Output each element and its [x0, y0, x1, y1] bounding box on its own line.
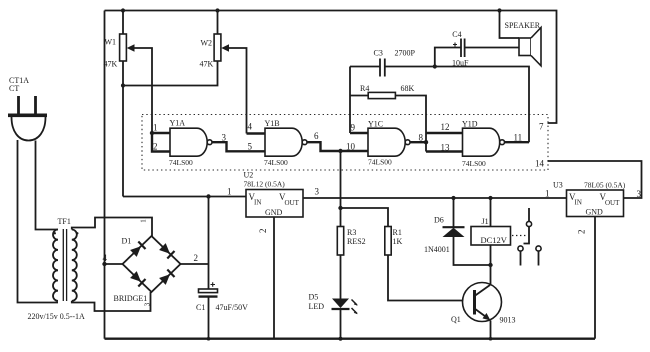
svg-text:Q1: Q1 — [451, 315, 461, 324]
svg-text:3: 3 — [144, 302, 152, 306]
svg-text:12: 12 — [441, 122, 450, 132]
svg-text:TF1: TF1 — [58, 217, 71, 226]
svg-text:47K: 47K — [200, 60, 214, 69]
svg-text:1K: 1K — [393, 237, 403, 246]
svg-text:1: 1 — [140, 219, 148, 223]
svg-text:1N4001: 1N4001 — [424, 245, 450, 254]
svg-text:4: 4 — [248, 122, 253, 132]
svg-text:10uF: 10uF — [452, 59, 469, 68]
svg-text:13: 13 — [441, 143, 451, 153]
svg-text:2700P: 2700P — [395, 49, 416, 58]
svg-text:IN: IN — [254, 199, 261, 207]
svg-text:2: 2 — [258, 229, 268, 234]
svg-text:LED: LED — [309, 302, 325, 311]
svg-text:D5: D5 — [309, 293, 319, 302]
svg-text:SPEAKER: SPEAKER — [505, 21, 541, 30]
svg-text:C4: C4 — [452, 30, 461, 39]
svg-text:9013: 9013 — [500, 316, 516, 325]
svg-text:C3: C3 — [374, 49, 383, 58]
svg-text:U3: U3 — [553, 181, 563, 190]
svg-text:9: 9 — [351, 123, 356, 133]
svg-text:Y1C: Y1C — [368, 120, 383, 129]
svg-text:OUT: OUT — [605, 199, 620, 207]
svg-text:W2: W2 — [201, 39, 213, 48]
svg-text:Y1B: Y1B — [265, 119, 280, 128]
svg-text:RES2: RES2 — [347, 237, 366, 246]
svg-text:8: 8 — [419, 133, 424, 143]
svg-text:220v/15v 0.5--1A: 220v/15v 0.5--1A — [28, 312, 86, 321]
svg-text:R1: R1 — [393, 228, 402, 237]
svg-text:14: 14 — [535, 159, 545, 169]
svg-text:IN: IN — [575, 199, 582, 207]
svg-text:U2: U2 — [244, 171, 254, 180]
svg-text:CT: CT — [9, 84, 19, 93]
svg-text:D1: D1 — [122, 237, 132, 246]
svg-text:OUT: OUT — [285, 199, 300, 207]
svg-text:68K: 68K — [401, 84, 415, 93]
svg-text:1: 1 — [545, 189, 550, 199]
svg-text:R3: R3 — [347, 228, 356, 237]
svg-text:GND: GND — [265, 208, 283, 217]
svg-text:3: 3 — [222, 133, 227, 143]
svg-text:74LS00: 74LS00 — [169, 158, 193, 167]
svg-text:74LS00: 74LS00 — [368, 158, 392, 167]
svg-text:2: 2 — [153, 142, 158, 152]
svg-text:7: 7 — [539, 122, 544, 132]
svg-text:D6: D6 — [434, 216, 444, 225]
svg-text:W1: W1 — [105, 38, 117, 47]
svg-text:6: 6 — [314, 131, 319, 141]
svg-text:Y1D: Y1D — [462, 120, 478, 129]
svg-text:BRIDGE1: BRIDGE1 — [114, 294, 148, 303]
svg-text:3: 3 — [637, 189, 642, 199]
svg-text:78L05 (0.5A): 78L05 (0.5A) — [584, 181, 626, 190]
svg-text:10: 10 — [346, 142, 356, 152]
svg-text:J1: J1 — [482, 217, 489, 226]
svg-text:47uF/50V: 47uF/50V — [216, 303, 249, 312]
svg-text:R4: R4 — [360, 84, 369, 93]
svg-text:74LS00: 74LS00 — [264, 158, 288, 167]
svg-text:11: 11 — [514, 133, 523, 143]
svg-text:Y1A: Y1A — [170, 119, 186, 128]
svg-text:74LS00: 74LS00 — [462, 159, 486, 168]
svg-text:C1: C1 — [196, 303, 205, 312]
svg-text:5: 5 — [248, 142, 253, 152]
svg-text:1: 1 — [153, 123, 158, 133]
svg-text:3: 3 — [315, 187, 320, 197]
svg-text:78L12 (0.5A): 78L12 (0.5A) — [244, 180, 286, 189]
svg-text:GND: GND — [586, 208, 604, 217]
svg-text:1: 1 — [227, 187, 232, 197]
svg-text:2: 2 — [194, 253, 199, 263]
svg-text:4: 4 — [103, 253, 108, 263]
svg-text:DC12V: DC12V — [481, 235, 508, 245]
svg-text:2: 2 — [577, 230, 587, 235]
svg-text:47K: 47K — [104, 60, 118, 69]
